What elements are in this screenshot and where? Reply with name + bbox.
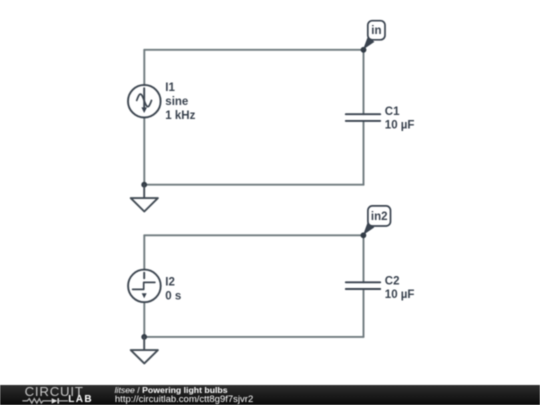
- wire right vertical upper (top loop): [363, 50, 365, 114]
- svg-text:sine: sine: [165, 96, 188, 108]
- wire left vertical lower (top loop): [143, 117, 145, 184]
- junction dot (bottom loop, ground corner): [141, 334, 147, 340]
- wire top horizontal (net in2): [144, 234, 363, 236]
- svg-text:in: in: [371, 25, 381, 37]
- wire left vertical lower (bottom loop): [143, 302, 145, 337]
- wire right vertical upper (bottom loop): [363, 235, 365, 282]
- wire bottom horizontal (bottom loop ground net): [144, 336, 363, 338]
- label C1 10 uF: [385, 106, 415, 132]
- label C2 10 uF: [385, 276, 415, 302]
- ground GND1: [131, 185, 158, 212]
- svg-text:1 kHz: 1 kHz: [165, 110, 195, 122]
- node dot in (top-right junction): [361, 47, 367, 53]
- svg-text:C1: C1: [385, 106, 400, 118]
- capacitor C2: [346, 282, 380, 289]
- node flag pointer (in): [363, 36, 374, 50]
- svg-text:0 s: 0 s: [165, 290, 181, 302]
- node dot in2 (top-right junction, bottom loop): [361, 232, 367, 238]
- junction dot (top loop, ground corner): [141, 182, 147, 188]
- wire left vertical upper (bottom loop): [143, 235, 145, 269]
- node flag pointer (in2): [363, 222, 374, 236]
- logo resistor squiggle: [22, 399, 51, 403]
- logo diode: [52, 398, 58, 403]
- svg-text:10 µF: 10 µF: [385, 289, 415, 301]
- footer title line: [115, 386, 228, 395]
- footer bar: [0, 385, 540, 405]
- node flag box in: [368, 21, 385, 40]
- wire top horizontal (net in): [144, 49, 363, 51]
- svg-text:I2: I2: [165, 277, 175, 289]
- CircuitLab logo wordmark LAB: [68, 395, 93, 405]
- current source I2 (step): [128, 270, 161, 303]
- wire right vertical lower (bottom loop): [363, 289, 365, 337]
- capacitor C1: [346, 114, 380, 121]
- label I2 0 s: [165, 277, 181, 303]
- wire right vertical lower (top loop): [363, 121, 365, 185]
- wire left vertical upper (top loop): [143, 50, 145, 85]
- current source I1: [128, 85, 161, 118]
- CircuitLab logo schematic row: resistor, diode, LAB: [0, 385, 110, 405]
- footer url line: [115, 395, 253, 405]
- svg-text:10 µF: 10 µF: [385, 119, 415, 131]
- svg-text:in2: in2: [371, 211, 388, 223]
- CircuitLab logo wordmark CIRCUIT: [25, 385, 84, 398]
- svg-text:I1: I1: [165, 82, 175, 94]
- label I1 sine 1 kHz: [165, 82, 195, 122]
- node flag box in2: [368, 206, 391, 226]
- wire bottom horizontal (top loop ground net): [144, 184, 363, 186]
- ground GND2: [131, 337, 158, 364]
- svg-text:C2: C2: [385, 276, 400, 288]
